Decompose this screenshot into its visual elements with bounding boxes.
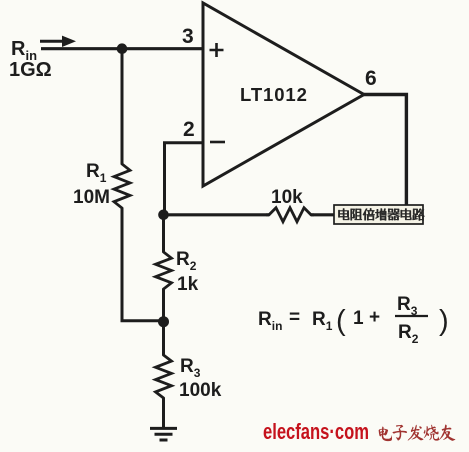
svg-text:1: 1 (353, 308, 364, 329)
callout text char 倍 (363, 208, 375, 220)
svg-text:LT1012: LT1012 (240, 84, 308, 105)
callout text char 电 (338, 209, 349, 220)
resistor R1 (114, 161, 130, 211)
svg-text:2: 2 (183, 118, 195, 141)
svg-text:=: = (289, 307, 300, 328)
svg-text:1k: 1k (177, 274, 199, 295)
callout text char 路 (412, 209, 424, 221)
ground symbol (150, 428, 177, 440)
svg-text:10M: 10M (73, 187, 110, 208)
logo char 发 (408, 425, 424, 441)
svg-text:): ) (439, 305, 449, 337)
wire feedback right (311, 213, 406, 216)
callout text char 增 (375, 209, 386, 221)
svg-text:100k: 100k (179, 380, 222, 401)
wire node to R2 (162, 215, 165, 252)
node divider junction (158, 316, 169, 327)
logo char 烧 (424, 425, 440, 441)
callout text char 器 (388, 209, 400, 220)
svg-text:1GΩ: 1GΩ (9, 59, 52, 81)
op-amp plus input symbol (210, 43, 224, 57)
svg-text:3: 3 (182, 25, 194, 48)
op-amp U1 LT1012 body (203, 3, 364, 186)
wire feedback left (164, 213, 270, 216)
wire node to R1 (121, 49, 124, 164)
svg-text:6: 6 (365, 67, 377, 90)
wire R1 to divider node (122, 208, 163, 321)
node input junction (117, 43, 128, 54)
wire R2 to divider node (162, 289, 165, 322)
wire output pin 6 (362, 95, 406, 207)
logo char 子 (393, 425, 408, 441)
svg-text:elecfans·com: elecfans·com (263, 419, 369, 444)
wire node to R3 (162, 322, 165, 355)
svg-text:+: + (369, 307, 380, 328)
wire R3 to ground (162, 398, 165, 428)
wire input to pin 3 (41, 47, 203, 50)
op-amp minus input symbol (210, 141, 225, 144)
svg-text:(: ( (336, 305, 346, 337)
callout box: resistance multiplier circuit (334, 205, 423, 224)
svg-text:10k: 10k (271, 187, 303, 208)
logo char 友 (439, 424, 455, 441)
callout text char 电 (401, 209, 412, 220)
node feedback junction (158, 210, 169, 221)
resistor R3 (156, 352, 172, 401)
callout text char 阻 (351, 209, 362, 221)
input current arrow (40, 40, 63, 43)
resistor 10k (feedback) (266, 208, 314, 222)
wire pin 2 to feedback node (165, 143, 204, 215)
resistor R2 (156, 249, 172, 292)
logo char 电 (379, 427, 392, 442)
